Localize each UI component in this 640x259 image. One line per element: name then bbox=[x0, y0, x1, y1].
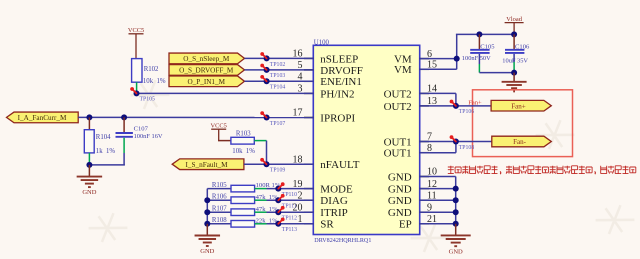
svg-text:TP105: TP105 bbox=[140, 96, 156, 102]
U100 pin numbers bbox=[293, 49, 438, 225]
svg-text:DIAG: DIAG bbox=[320, 195, 348, 207]
resistor R102 bbox=[132, 59, 166, 85]
node TP112 bbox=[275, 206, 297, 222]
node ladder bus bbox=[204, 221, 210, 227]
svg-text:GND: GND bbox=[388, 184, 412, 196]
wire R105 right (green) bbox=[255, 188, 267, 190]
port Fan+ bbox=[491, 100, 551, 111]
capacitor C105 bbox=[462, 34, 495, 62]
wire C107 bottom (green) bbox=[123, 138, 125, 153]
wire pin16 nSLEEP bbox=[245, 57, 314, 59]
wire pin9 bbox=[420, 211, 456, 213]
wire R103 right (green) bbox=[254, 140, 266, 142]
wire pin17 IPROPI bbox=[78, 116, 313, 118]
power Vload bbox=[505, 16, 524, 35]
svg-text:GND: GND bbox=[449, 248, 463, 255]
watermark bbox=[86, 74, 636, 259]
wire OUT2 vertical bbox=[455, 93, 457, 106]
svg-text:MODE: MODE bbox=[320, 184, 353, 196]
svg-text:1k 1%: 1k 1% bbox=[96, 148, 116, 155]
svg-text:IPROPI: IPROPI bbox=[320, 112, 355, 124]
svg-text:ENE/IN1: ENE/IN1 bbox=[320, 76, 362, 88]
svg-text:TP106: TP106 bbox=[459, 109, 475, 115]
wire R108 right (green) bbox=[255, 223, 267, 225]
node gnd bus pin21 bbox=[453, 221, 459, 227]
svg-text:SR: SR bbox=[320, 219, 334, 231]
wire VCC5 to R103 bbox=[218, 140, 231, 142]
svg-text:I_S_nFault_M: I_S_nFault_M bbox=[186, 161, 229, 169]
power VCC5 (R103) bbox=[211, 122, 227, 140]
wire R104 bottom (green) bbox=[88, 153, 90, 165]
svg-text:R103: R103 bbox=[236, 130, 251, 137]
node caps gnd bbox=[511, 70, 517, 76]
op-amp U100 DRV8242HQRHLRQ1 body bbox=[313, 39, 419, 244]
svg-text:R106: R106 bbox=[212, 194, 227, 201]
node TP108 bbox=[450, 135, 475, 151]
svg-text:O_S_nSleep_M: O_S_nSleep_M bbox=[183, 55, 230, 63]
wire pin7 OUT1 bbox=[420, 141, 456, 143]
svg-text:TP102: TP102 bbox=[270, 62, 286, 68]
wire C105 bottom lead bbox=[478, 54, 480, 64]
svg-text:TP113: TP113 bbox=[282, 227, 297, 233]
svg-text:VCC5: VCC5 bbox=[128, 27, 144, 34]
svg-text:OUT2: OUT2 bbox=[384, 88, 412, 100]
wire R102 to node (green) bbox=[136, 82, 138, 93]
svg-text:ITRIP: ITRIP bbox=[320, 207, 348, 219]
svg-text:Fan+: Fan+ bbox=[511, 102, 526, 110]
svg-text:nSLEEP: nSLEEP bbox=[320, 53, 358, 65]
port I_A_FanCurr_M bbox=[7, 112, 79, 123]
svg-text:OUT1: OUT1 bbox=[384, 136, 412, 148]
resistor R106 bbox=[207, 194, 278, 204]
port O_P_IN1_M bbox=[169, 76, 245, 87]
svg-text:EP: EP bbox=[399, 219, 412, 231]
node TP102 bbox=[260, 52, 285, 68]
node gnd bus pin11 bbox=[453, 197, 459, 203]
svg-text:TP103: TP103 bbox=[270, 73, 286, 79]
wire gnd bus vertical bbox=[455, 177, 457, 224]
wire R106 to pin bbox=[267, 199, 314, 201]
node ladder bus bbox=[204, 209, 210, 215]
svg-text:Fan-: Fan- bbox=[513, 138, 527, 146]
svg-text:I_A_FanCurr_M: I_A_FanCurr_M bbox=[18, 114, 67, 122]
svg-text:R102: R102 bbox=[144, 66, 159, 73]
node R104/C107 gnd bbox=[86, 162, 92, 168]
ground GND1 bbox=[77, 165, 103, 196]
wire R106 right (green) bbox=[255, 199, 267, 201]
svg-text:100nF 50V: 100nF 50V bbox=[462, 55, 491, 62]
port O_S_DRVOFF_M bbox=[169, 65, 245, 76]
svg-text:O_S_DRVOFF_M: O_S_DRVOFF_M bbox=[179, 67, 234, 75]
svg-text:VM: VM bbox=[394, 64, 412, 76]
svg-text:GND: GND bbox=[82, 189, 96, 196]
svg-text:PH/IN2: PH/IN2 bbox=[320, 88, 354, 100]
ground GND2 (caps) bbox=[502, 73, 527, 92]
svg-text:TP108: TP108 bbox=[459, 145, 475, 151]
svg-text:TP107: TP107 bbox=[270, 121, 286, 127]
svg-text:10k 1%: 10k 1% bbox=[232, 148, 255, 155]
resistor R103 bbox=[231, 130, 255, 154]
wire pin12 bbox=[420, 188, 456, 190]
wire OUT1 vertical bbox=[455, 142, 457, 153]
svg-text:GND: GND bbox=[200, 248, 214, 255]
node TP113 bbox=[275, 218, 297, 234]
wire ladder gnd bus bbox=[206, 189, 208, 224]
wire pin18 nFAULT bbox=[244, 163, 313, 165]
wire pin10 GND bbox=[420, 176, 456, 178]
U100 pin stubs bbox=[304, 58, 429, 223]
svg-text:C105: C105 bbox=[480, 44, 495, 51]
port Fan- bbox=[492, 136, 552, 147]
node ladder bus bbox=[204, 197, 210, 203]
svg-text:DRV8242HQRHLRQ1: DRV8242HQRHLRQ1 bbox=[314, 238, 371, 244]
svg-text:GND: GND bbox=[388, 171, 412, 183]
svg-text:U100: U100 bbox=[314, 39, 330, 46]
wire pin3 PH/IN2 bbox=[137, 92, 314, 94]
wire C106 bottom lead bbox=[513, 54, 515, 62]
svg-text:R107: R107 bbox=[212, 206, 227, 213]
wire C107 to gnd node bbox=[123, 153, 125, 165]
wire VM top rail bbox=[456, 33, 514, 35]
wire OUT1 to Fan- bbox=[456, 141, 492, 143]
wire C106 bottom (green) bbox=[513, 62, 515, 73]
capacitor C107 bbox=[116, 117, 163, 139]
U100 pin names bbox=[320, 53, 412, 230]
wire R107 right (green) bbox=[255, 211, 267, 213]
svg-text:DRVOFF: DRVOFF bbox=[320, 65, 363, 77]
wire C105 bottom (green) bbox=[478, 64, 480, 73]
node gnd bus pin9 bbox=[453, 209, 459, 215]
annotation red chinese text bbox=[448, 166, 636, 174]
svg-text:TP109: TP109 bbox=[270, 168, 286, 174]
wire caps bottom rail bbox=[479, 72, 514, 74]
capacitor C106 bbox=[502, 34, 530, 64]
svg-text:OUT2: OUT2 bbox=[384, 101, 412, 113]
wire R108 to pin bbox=[267, 223, 314, 225]
node gnd bus pin12 bbox=[453, 186, 459, 192]
svg-text:TP104: TP104 bbox=[270, 85, 286, 91]
node Vload/C106 bbox=[511, 31, 517, 37]
node C105 top bbox=[476, 31, 482, 37]
svg-text:C107: C107 bbox=[134, 126, 149, 133]
ground GND4 (ladder) bbox=[195, 224, 221, 255]
wire VM vertical bbox=[456, 34, 458, 69]
node TP105 bbox=[130, 87, 155, 102]
svg-text:GND: GND bbox=[388, 195, 412, 207]
svg-text:R105: R105 bbox=[212, 182, 227, 189]
svg-text:C106: C106 bbox=[515, 44, 530, 51]
svg-text:VCC5: VCC5 bbox=[211, 122, 227, 129]
svg-text:R108: R108 bbox=[212, 217, 227, 224]
node TP107 bbox=[260, 111, 285, 127]
port O_S_nSleep_M bbox=[169, 53, 245, 64]
power VCC5 (R102) bbox=[128, 27, 144, 59]
node R104 top bbox=[86, 114, 92, 120]
node TP104 bbox=[260, 75, 285, 91]
wire pin6 VM bbox=[420, 58, 457, 60]
wire R107 to pin bbox=[267, 211, 314, 213]
wire pin13 OUT2 to Fan+ bbox=[420, 105, 491, 107]
wire pin4 ENE/IN1 bbox=[245, 80, 314, 82]
wire pin8 OUT1 bbox=[420, 152, 456, 154]
svg-text:Vload: Vload bbox=[506, 16, 522, 23]
svg-text:10k 1%: 10k 1% bbox=[143, 78, 166, 85]
svg-text:10uF 35V: 10uF 35V bbox=[502, 58, 528, 65]
port I_S_nFault_M bbox=[172, 159, 244, 170]
svg-text:100nF 16V: 100nF 16V bbox=[134, 133, 163, 140]
resistor R104 bbox=[84, 117, 115, 155]
ground GND3 (ic) bbox=[441, 224, 471, 256]
node TP106 bbox=[450, 100, 475, 116]
svg-text:OUT1: OUT1 bbox=[384, 148, 412, 160]
node TP110 bbox=[275, 182, 297, 198]
svg-text:R104: R104 bbox=[96, 134, 111, 141]
resistor R105 bbox=[207, 182, 281, 192]
node C107 top bbox=[121, 114, 127, 120]
red frame box bbox=[473, 90, 573, 157]
svg-text:nFAULT: nFAULT bbox=[320, 159, 359, 171]
wire R105 to pin bbox=[267, 188, 314, 190]
wire pin15 VM bbox=[420, 68, 457, 70]
node TP103 bbox=[260, 64, 285, 80]
resistor R107 bbox=[207, 206, 278, 216]
wire pin21 bbox=[420, 223, 456, 225]
svg-text:O_P_IN1_M: O_P_IN1_M bbox=[187, 78, 225, 86]
wire pin14 OUT2 bbox=[420, 92, 456, 94]
node TP111 bbox=[275, 194, 297, 210]
resistor R108 bbox=[207, 217, 278, 227]
node pin6/VM bbox=[454, 56, 460, 62]
wire pin11 bbox=[420, 199, 456, 201]
svg-text:GND: GND bbox=[388, 207, 412, 219]
wire pin5 DRVOFF bbox=[245, 69, 314, 71]
svg-text:Fan+: Fan+ bbox=[468, 99, 482, 106]
node TP109 bbox=[260, 158, 285, 174]
wire R103 down to nFAULT net bbox=[266, 141, 268, 165]
